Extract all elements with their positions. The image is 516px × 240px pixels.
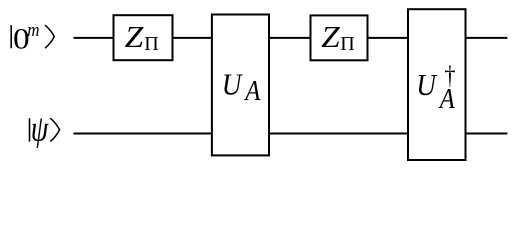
svg-text:A: A (244, 76, 262, 107)
svg-text:U: U (222, 68, 243, 102)
svg-text:Π: Π (144, 33, 159, 55)
ket label |psi> on bottom wire (30, 109, 60, 149)
bottom wire (system register) (74, 133, 508, 135)
svg-text:ψ: ψ (31, 109, 49, 149)
top wire (ancilla register) (74, 37, 508, 39)
gate U_A-dagger (inverse block-encoding unitary, spans both wires) (408, 9, 466, 160)
svg-text:Z: Z (321, 19, 341, 54)
gate Z_Pi (first projector gate, top wire) (114, 15, 173, 60)
svg-text:U: U (416, 69, 437, 103)
svg-text:Π: Π (340, 33, 355, 55)
svg-text:Z: Z (125, 19, 145, 54)
ket label |0^m> on top wire (11, 19, 54, 55)
svg-text:†: † (444, 62, 455, 91)
gate U_A (block-encoding unitary, spans both wires) (212, 15, 269, 156)
gate Z_Pi (second projector gate, top wire) (311, 15, 368, 60)
svg-text:m: m (27, 19, 39, 40)
